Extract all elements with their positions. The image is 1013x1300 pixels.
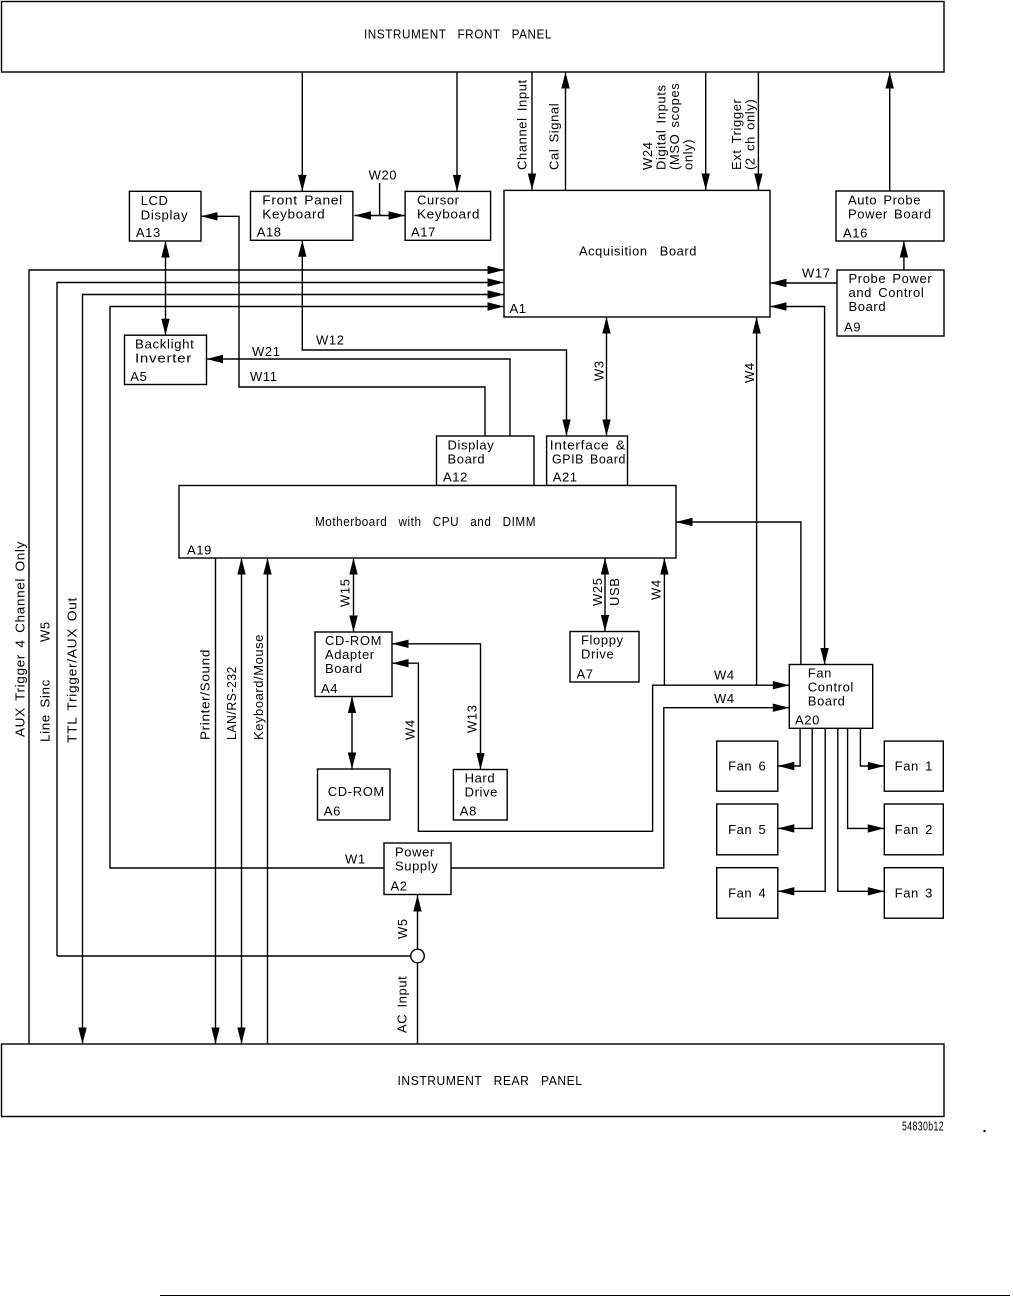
wire A20 to Fan 1	[860, 728, 884, 766]
svg-text:Board: Board	[849, 299, 887, 314]
svg-text:Control: Control	[808, 680, 854, 695]
svg-text:Interface &: Interface &	[550, 438, 626, 453]
svg-text:A13: A13	[136, 225, 161, 240]
svg-text:USB: USB	[607, 577, 622, 606]
svg-text:AUX Trigger 4 Channel Only: AUX Trigger 4 Channel Only	[13, 541, 28, 737]
wire Printer/Sound (motherboard to rear panel)	[215, 558, 217, 1044]
wire Ext Trigger (front panel to A1)	[757, 72, 759, 190]
wire W20 (A18 to A17)	[379, 183, 381, 216]
svg-text:Board: Board	[808, 694, 846, 709]
Backlight Inverter A5	[125, 335, 207, 384]
junction AC input node	[411, 949, 425, 963]
Hard Drive A8	[453, 770, 507, 821]
instrument rear panel	[2, 1044, 945, 1117]
svg-text:A6: A6	[324, 804, 341, 819]
wire Cal Signal (A1 to front panel)	[565, 72, 567, 190]
svg-text:TTL Trigger/AUX Out: TTL Trigger/AUX Out	[65, 597, 80, 743]
wire A20 to Fan 4	[778, 728, 825, 891]
svg-text:INSTRUMENT FRONT PANEL: INSTRUMENT FRONT PANEL	[364, 27, 552, 42]
svg-text:W12: W12	[316, 333, 345, 348]
svg-text:INSTRUMENT REAR PANEL: INSTRUMENT REAR PANEL	[398, 1073, 583, 1088]
wire W11 (A12 display board to A13 LCD)	[201, 216, 485, 436]
svg-text:and Control: and Control	[849, 285, 925, 300]
Fan 3	[884, 868, 943, 919]
wire A20 to A1 right edge	[770, 307, 825, 665]
Front Panel Keyboard A18	[251, 191, 353, 240]
svg-text:W17: W17	[802, 266, 831, 281]
wire front panel to A18	[301, 72, 303, 191]
svg-text:CD-ROM: CD-ROM	[325, 633, 382, 648]
svg-text:W5: W5	[395, 918, 410, 939]
svg-text:W15: W15	[338, 578, 353, 607]
wire AC Input (rear panel to junction)	[417, 963, 419, 1044]
Acquisition Board A1	[504, 190, 770, 317]
Motherboard with CPU and DIMM A19	[179, 486, 676, 559]
svg-text:Supply: Supply	[395, 859, 438, 874]
svg-text:Display: Display	[448, 438, 495, 453]
svg-text:GPIB Board: GPIB Board	[552, 452, 626, 467]
svg-text:A19: A19	[187, 542, 212, 557]
Fan 2	[884, 804, 943, 855]
svg-text:LAN/RS-232: LAN/RS-232	[224, 666, 239, 740]
Auto Probe Power Board A16	[836, 191, 944, 241]
svg-text:A17: A17	[411, 224, 436, 239]
svg-text:W4: W4	[742, 362, 757, 383]
svg-text:W11: W11	[250, 369, 278, 384]
wire A13 to A5 (backlight)	[165, 241, 167, 335]
wire LAN/RS-232 (motherboard to rear panel)	[241, 558, 243, 1044]
wire A16 to front panel	[889, 72, 891, 191]
svg-text:A21: A21	[553, 470, 578, 485]
footer rule	[160, 1295, 1010, 1297]
svg-text:A8: A8	[460, 804, 477, 819]
svg-text:A16: A16	[843, 225, 868, 240]
CD-ROM Adapter Board A4	[315, 632, 392, 697]
svg-text:A9: A9	[844, 320, 861, 335]
wire W21 (A12 display board to A5 inverter)	[207, 359, 511, 436]
LCD Display A13	[129, 191, 201, 241]
svg-text:Acquisition Board: Acquisition Board	[579, 244, 697, 259]
svg-text:W4: W4	[403, 719, 418, 740]
wire W3 (A1 to A21)	[606, 317, 608, 436]
wire W5 (AC junction to power supply)	[417, 895, 419, 949]
Floppy Drive A7	[570, 632, 639, 683]
svg-text:W4: W4	[649, 579, 664, 600]
Fan 4	[717, 868, 778, 919]
Display Board A12	[437, 436, 535, 486]
svg-text:Power Board: Power Board	[848, 207, 932, 222]
wire W4 (A4 adapter to A20 fan control)	[392, 663, 789, 831]
Fan 1	[884, 741, 943, 791]
svg-text:Probe Power: Probe Power	[849, 271, 933, 286]
wire Line Sinc / W5 rail (to A1)	[57, 283, 504, 957]
wire A20 to Fan 2	[848, 728, 885, 828]
svg-text:A18: A18	[257, 224, 282, 239]
svg-text:W13: W13	[465, 704, 480, 733]
svg-text:Line Sinc: Line Sinc	[38, 679, 53, 742]
svg-text:Cal Signal: Cal Signal	[547, 103, 562, 170]
svg-text:Front Panel: Front Panel	[262, 193, 343, 208]
svg-text:W25: W25	[590, 577, 605, 606]
svg-text:W5: W5	[38, 621, 53, 642]
svg-text:Printer/Sound: Printer/Sound	[198, 649, 213, 740]
svg-text:Fan 6: Fan 6	[728, 759, 766, 774]
wire W15 (motherboard to A4)	[353, 558, 355, 632]
svg-text:Motherboard with CPU and D: Motherboard with CPU and DIMM	[315, 514, 536, 529]
svg-text:Adapter: Adapter	[325, 647, 375, 662]
svg-text:A5: A5	[130, 369, 147, 384]
wire W13 (A8 hard drive to A4)	[392, 644, 481, 770]
svg-text:Backlight: Backlight	[135, 336, 195, 351]
svg-text:W20: W20	[369, 168, 398, 183]
Probe Power and Control Board A9	[837, 270, 944, 336]
wire W17 (A9 to A1)	[770, 282, 837, 284]
wire A20 to Fan 3	[838, 728, 885, 891]
svg-text:Auto Probe: Auto Probe	[848, 193, 921, 208]
wire Keyboard/Mouse (rear panel to motherboard)	[267, 558, 269, 1044]
svg-text:W4: W4	[714, 691, 735, 706]
svg-text:Channel Input: Channel Input	[515, 79, 530, 170]
Fan Control Board A20	[789, 665, 872, 729]
svg-text:Hard: Hard	[465, 771, 496, 786]
svg-text:W21: W21	[252, 344, 281, 359]
svg-text:A2: A2	[391, 879, 408, 894]
svg-text:Keyboard: Keyboard	[262, 207, 325, 222]
wire AUX Trigger rail (rear panel to A1)	[29, 270, 504, 1044]
svg-text:Display: Display	[141, 207, 189, 222]
svg-text:A1: A1	[510, 301, 527, 316]
svg-text:Fan 4: Fan 4	[728, 885, 766, 900]
CD-ROM A6	[318, 769, 391, 820]
wire W24 Digital Inputs (front panel to A1)	[705, 72, 707, 190]
svg-text:Keyboard/Mouse: Keyboard/Mouse	[251, 634, 266, 740]
svg-text:W4: W4	[714, 668, 735, 683]
svg-text:LCD: LCD	[141, 193, 169, 208]
wire A4 to A6 CD-ROM	[351, 697, 353, 770]
svg-text:54830b12: 54830b12	[902, 1119, 944, 1134]
Power Supply A2	[384, 843, 451, 895]
svg-text:Inverter: Inverter	[135, 350, 192, 365]
wire W12 (A18 keyboard to A21 GPIB board)	[302, 240, 566, 436]
svg-text:A12: A12	[443, 470, 468, 485]
Fan 5	[717, 804, 778, 855]
svg-text:Floppy: Floppy	[581, 633, 624, 648]
svg-text:(2 ch only): (2 ch only)	[743, 99, 758, 170]
svg-text:Fan 2: Fan 2	[895, 822, 933, 837]
svg-text:Fan 3: Fan 3	[895, 885, 933, 900]
svg-text:Fan 1: Fan 1	[895, 759, 933, 774]
svg-text:A4: A4	[321, 681, 338, 696]
svg-text:Drive: Drive	[581, 647, 614, 662]
svg-text:Fan 5: Fan 5	[728, 822, 766, 837]
svg-text:Cursor: Cursor	[417, 193, 460, 208]
svg-text:Keyboard: Keyboard	[417, 207, 480, 222]
wire W4 (A1 to fan control junction)	[756, 317, 758, 685]
Interface & GPIB Board A21	[547, 436, 628, 486]
svg-text:AC Input: AC Input	[395, 976, 410, 1033]
wire front panel to A17	[456, 72, 458, 191]
svg-text:only): only)	[681, 139, 696, 170]
svg-text:Board: Board	[325, 661, 363, 676]
wire TTL Trigger/AUX Out rail (A1 to rear panel)	[83, 295, 505, 1045]
Fan 6	[717, 741, 778, 791]
svg-text:Board: Board	[448, 452, 486, 467]
svg-text:Drive: Drive	[465, 785, 498, 800]
svg-text:Fan: Fan	[808, 666, 832, 681]
wire W4 (power supply to A20 lower input)	[451, 708, 789, 868]
svg-text:Power: Power	[395, 845, 435, 860]
wire W4 (power to motherboard bottom)	[663, 558, 665, 685]
wire W5 tap (line sinc rail to AC junction)	[57, 955, 411, 957]
wire Channel Input (front panel to A1)	[531, 72, 533, 190]
wire A20 to motherboard right edge	[676, 522, 801, 665]
wire A20 to Fan 6	[778, 728, 800, 766]
svg-text:W1: W1	[345, 852, 366, 867]
svg-text:CD-ROM: CD-ROM	[328, 784, 385, 799]
svg-text:W3: W3	[592, 360, 607, 381]
svg-text:A20: A20	[795, 712, 820, 727]
instrument front panel	[2, 2, 945, 73]
stray dot	[983, 1130, 985, 1132]
wire A20 to Fan 5	[778, 728, 812, 828]
Cursor Keyboard A17	[405, 191, 491, 240]
wire W1 (power supply to A1)	[110, 307, 504, 869]
wire W25 USB (motherboard to A7 floppy)	[604, 558, 606, 632]
wire A9 to A16	[903, 241, 905, 270]
svg-text:A7: A7	[577, 667, 594, 682]
